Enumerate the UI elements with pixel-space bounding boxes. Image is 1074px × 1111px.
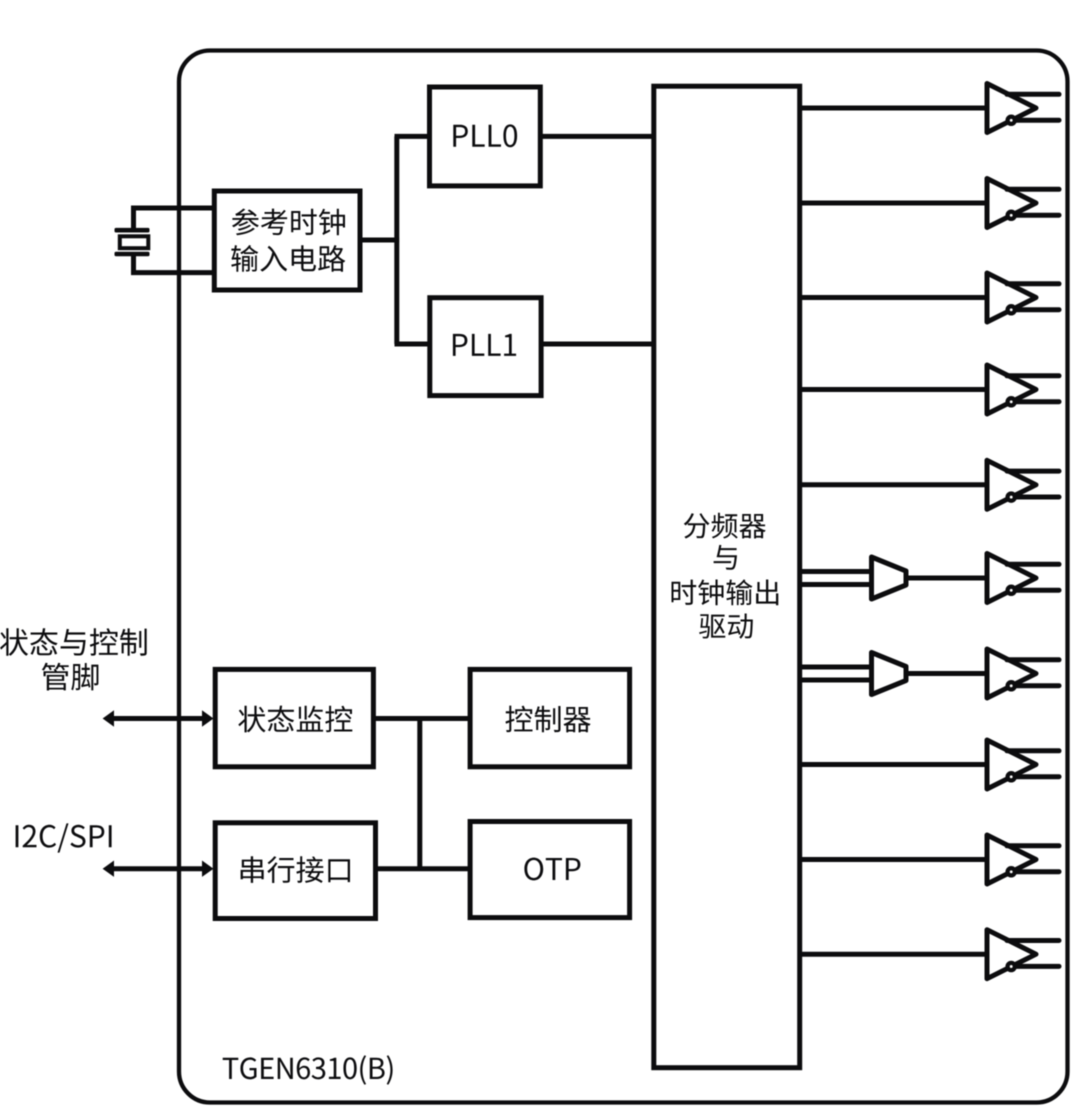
wire divider to output buffer row 5 [800, 482, 990, 487]
label I2C/SPI [16, 823, 112, 852]
output buffer OUT1 driver triangle with inverting bubble [987, 84, 1059, 133]
wire divider differential pair to pre-driver row 7 (lower) [800, 678, 872, 683]
wire divider to output buffer row 4 [800, 387, 990, 392]
output buffer OUT7 driver triangle with inverting bubble [987, 649, 1059, 698]
output buffer OUT4 driver triangle with inverting bubble [987, 365, 1059, 414]
bidirectional arrow I2C/SPI pins [112, 866, 204, 871]
wire divider to output buffer row 9 [800, 857, 990, 862]
wire PLL branch vertical [394, 136, 399, 344]
output buffer OUT8 driver triangle with inverting bubble [987, 740, 1059, 789]
wire branch to PLL0 input [395, 134, 430, 139]
crystal Y1 body [120, 236, 149, 248]
wire reference clock output to PLL branch node [360, 238, 399, 243]
pre-driver buffer row 7 (trapezoid) [872, 653, 907, 695]
label TGEN6310(B) [223, 1055, 393, 1084]
wire divider to output buffer row 10 [800, 952, 990, 957]
output buffer OUT9 driver triangle with inverting bubble [987, 835, 1059, 884]
wire serial interface to OTP [376, 866, 471, 871]
wire divider to output buffer row 2 [800, 201, 990, 206]
wire crystal top terminal to reference clock input [134, 208, 217, 229]
bidirectional arrow status/control pins [112, 716, 204, 721]
wire divider differential pair to pre-driver row 7 (upper) [800, 665, 872, 670]
chip boundary (TGEN6310(B) IC outline) [179, 51, 1068, 1103]
block status monitor 状态监控 [215, 669, 373, 766]
pre-driver buffer row 6 (trapezoid) [872, 557, 907, 599]
wire pre-driver to output buffer row 6 [906, 576, 990, 581]
wire branch to PLL1 input [395, 342, 430, 347]
wire pre-driver to output buffer row 7 [906, 671, 990, 676]
block divider and clock output driver 分频器与时钟输出驱动 [654, 86, 800, 1067]
wire control bus vertical junction [417, 716, 422, 871]
crystal Y1 top electrode plate [115, 228, 150, 233]
output buffer OUT5 driver triangle with inverting bubble [987, 460, 1059, 509]
wire divider differential pair to pre-driver row 6 (upper) [800, 569, 872, 574]
wire divider to output buffer row 3 [800, 295, 990, 300]
crystal Y1 bottom electrode plate [115, 252, 150, 257]
wire PLL1 output to divider [541, 342, 654, 347]
wire status monitor to controller [373, 716, 470, 721]
wire divider to output buffer row 8 [800, 762, 990, 767]
block PLL1 [430, 298, 541, 396]
block PLL0 [430, 87, 541, 186]
block U1 reference clock input circuit 参考时钟输入电路 [214, 191, 360, 290]
output buffer OUT3 driver triangle with inverting bubble [987, 273, 1059, 322]
wire divider to output buffer row 1 [800, 106, 990, 111]
block controller 控制器 [470, 669, 629, 766]
output buffer OUT10 driver triangle with inverting bubble [987, 930, 1059, 979]
output buffer OUT2 driver triangle with inverting bubble [987, 179, 1059, 228]
wire divider differential pair to pre-driver row 6 (lower) [800, 582, 872, 587]
wire PLL0 output to divider [540, 134, 654, 139]
label 状态与控制管脚 (status and control pins) [0, 628, 147, 656]
wire crystal bottom terminal to reference clock input [134, 255, 217, 273]
block OTP [470, 822, 629, 918]
block serial interface 串行接口 [215, 823, 375, 919]
output buffer OUT6 driver triangle with inverting bubble [987, 554, 1059, 603]
